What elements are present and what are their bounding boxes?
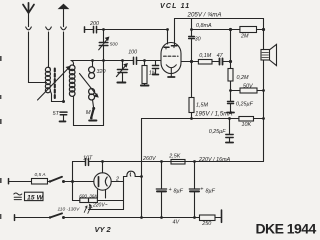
svg-text:8µF: 8µF	[206, 188, 216, 194]
svg-text:200: 200	[89, 21, 99, 27]
svg-text:VY 2: VY 2	[95, 225, 112, 234]
svg-text:1M: 1M	[149, 71, 157, 77]
svg-text:10T: 10T	[83, 155, 93, 161]
svg-text:0,1M: 0,1M	[199, 53, 211, 59]
svg-text:36K: 36K	[89, 193, 98, 198]
svg-text:+: +	[169, 187, 172, 193]
svg-text:220V~: 220V~	[92, 203, 108, 209]
svg-text:0,25µF: 0,25µF	[236, 102, 254, 108]
svg-text:0,2M: 0,2M	[237, 75, 249, 81]
svg-text:30: 30	[195, 36, 201, 42]
svg-text:100: 100	[128, 49, 137, 55]
svg-text:250: 250	[201, 221, 211, 227]
svg-text:8µF: 8µF	[174, 188, 184, 194]
svg-text:47: 47	[217, 53, 224, 59]
svg-text:0,25µF: 0,25µF	[209, 129, 227, 135]
svg-text:220V / 16mA: 220V / 16mA	[198, 157, 231, 163]
svg-text:+: +	[200, 186, 203, 192]
svg-text:10K: 10K	[242, 122, 252, 128]
svg-text:DKE 1944: DKE 1944	[256, 221, 317, 237]
svg-text:2: 2	[115, 176, 119, 182]
svg-text:205V / ¾mA: 205V / ¾mA	[187, 12, 222, 19]
svg-text:0,8mA: 0,8mA	[196, 23, 212, 29]
svg-text:50V: 50V	[243, 84, 254, 90]
svg-text:VCL 11: VCL 11	[160, 3, 190, 10]
svg-text:15 W: 15 W	[27, 194, 43, 201]
svg-text:110 -130V: 110 -130V	[58, 206, 81, 212]
svg-text:2M: 2M	[240, 34, 249, 40]
svg-text:320: 320	[97, 69, 106, 75]
svg-text:5T: 5T	[53, 111, 60, 117]
svg-text:1,5M: 1,5M	[196, 102, 208, 108]
svg-text:500: 500	[110, 42, 118, 47]
svg-text:2,5K: 2,5K	[168, 153, 180, 159]
svg-text:M: M	[86, 110, 91, 116]
svg-text:260V: 260V	[142, 156, 157, 162]
svg-text:600: 600	[79, 193, 87, 198]
svg-text:195V / 1,5mA: 195V / 1,5mA	[195, 111, 233, 118]
svg-text:0,5 A: 0,5 A	[35, 172, 46, 178]
